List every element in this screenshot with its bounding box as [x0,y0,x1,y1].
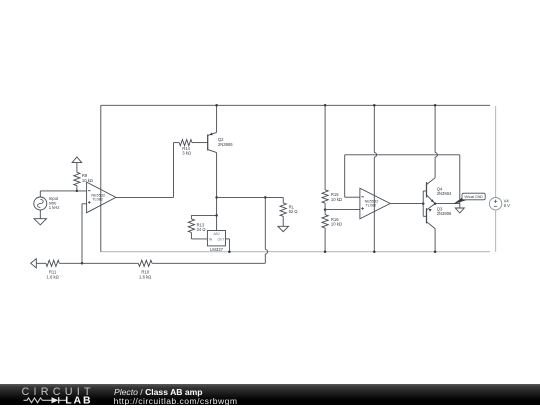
svg-text:62 Ω: 62 Ω [289,209,298,214]
svg-text:TL082: TL082 [92,198,103,202]
ground virtual GND [455,204,464,213]
svg-text:1.6 kΩ: 1.6 kΩ [139,275,151,280]
node Q2 collector output [215,196,218,199]
wire V4 branch top [495,106,497,198]
svg-text:3 kΩ: 3 kΩ [182,151,191,156]
node Q4 collector rail [434,104,437,107]
resistor R16 [322,210,342,252]
svg-text:LAB: LAB [65,395,92,405]
node R13 junction [215,214,218,217]
svg-text:10 kΩ: 10 kΩ [331,197,342,202]
svg-text:LM337: LM337 [210,247,223,252]
op-amp U1 NE5532 TL082 [87,182,116,213]
resistor R10 [82,260,152,279]
wire V4 branch bottom [495,210,497,252]
wire input to op-amp inverting input [40,190,86,192]
wire U2 feedback loop [345,155,460,204]
title text [114,387,203,397]
wire output node to RL [217,197,284,203]
resistor R13 [188,219,207,239]
resistor RL [280,203,297,222]
resistor R15 [322,186,342,209]
ground input source [34,210,47,225]
node U2 V- rail [373,250,376,253]
node divider tap [324,208,327,211]
source V1 input sine [34,191,60,210]
node R9-input junction [76,190,79,193]
regulator U3 LM337 [207,231,225,252]
ground RL [278,222,289,232]
transistor Q3 2N3906 [423,204,452,229]
node emitter output [434,202,437,205]
wire Q3 collector to ground rail [434,229,436,252]
wire op-amp U2 supply column [374,105,376,251]
svg-text:OUT: OUT [217,237,225,241]
label flag Virtual GND [453,193,485,204]
op-amp U2 NE5532 TL082 [360,188,390,219]
node U2 V+ rail [373,104,376,107]
url text [114,396,238,406]
wire output to feedback resistors [152,197,267,263]
wire base splitter [422,191,424,216]
svg-text:1.6 kΩ: 1.6 kΩ [46,275,58,280]
node Q2 emitter / V+ rail [215,104,218,107]
svg-text:2N3906: 2N3906 [218,142,233,147]
wire Q4 collector to V+ rail [435,105,437,178]
wire R13 to Q2 collector [191,215,216,219]
node feedback junction [81,262,84,265]
wire op-amp output to R14 [116,143,174,198]
wire bottom ground rail [101,251,490,253]
wire divider column top [324,105,326,186]
wire op-amp U1 supply column [100,105,102,251]
svg-text:24 Ω: 24 Ω [197,227,206,232]
source V4 9V [489,198,510,210]
svg-text:10 kΩ: 10 kΩ [331,222,342,227]
transistor Q4 2N3904 [423,178,452,204]
port input net arrow [31,259,37,268]
power V+ arrow [72,157,82,172]
svg-text:Virtual GND: Virtual GND [464,195,483,199]
svg-text:9 V: 9 V [504,203,510,208]
resistor R9 [74,172,93,191]
svg-text:1 kHz: 1 kHz [49,205,60,210]
wire LM337 OUT to rail [226,239,230,252]
wire tap to U2 non-inverting input [325,209,360,211]
node LM337 rail [228,250,231,253]
svg-text:2N3904: 2N3904 [437,191,452,196]
wire non-inverting input to feedback node [82,204,87,263]
resistor R11 [36,260,82,279]
svg-text:ADJ: ADJ [212,232,219,236]
node Q3 collector rail [434,250,437,253]
node divider top rail [324,104,327,107]
node base splitter [422,202,425,205]
CircuitLab logo [21,385,96,405]
transistor Q2 2N3906 [208,105,234,230]
resistor R14 [174,140,208,156]
node output feedback branch [264,196,267,199]
svg-text:2N3906: 2N3906 [437,211,452,216]
svg-text:TL082: TL082 [366,204,377,208]
node divider bottom rail [324,250,327,253]
wire emitters to virtual ground [435,203,460,205]
wire top supply rail [101,104,490,106]
wire U2 output to transistor bases [390,203,423,205]
